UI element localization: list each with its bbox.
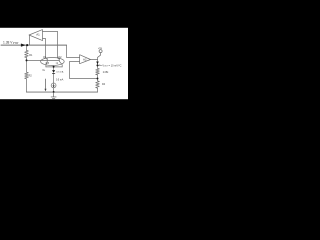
wire emitter rail xyxy=(46,66,62,68)
junction dot main node xyxy=(26,44,28,46)
soft top boundary xyxy=(0,26,128,29)
ellipse around Q1 Q2 pair xyxy=(41,58,65,66)
svg-text:0.5 mA: 0.5 mA xyxy=(56,71,63,74)
junction dot output node xyxy=(96,64,98,66)
diode D1 xyxy=(52,70,55,73)
ground symbol xyxy=(51,92,57,98)
current source internal arrow xyxy=(53,84,55,87)
resistor R4 xyxy=(96,81,100,88)
wire A1 bottom input to Q1 collector xyxy=(43,39,46,58)
wire main rail to A2 upper input xyxy=(67,45,80,57)
letterbox background xyxy=(0,0,128,128)
white schematic panel xyxy=(0,28,128,99)
svg-text:2.05k: 2.05k xyxy=(103,72,109,74)
junction dot current source rail xyxy=(53,91,55,93)
wire left divider top xyxy=(26,45,28,50)
wire A1 top input to Q2 collector xyxy=(43,31,58,57)
junction dot divider tap xyxy=(26,59,28,61)
wire A2 output xyxy=(91,59,98,61)
junction dot feedback tap xyxy=(97,78,99,80)
resistor R1 xyxy=(25,50,29,57)
svg-text:0.5 mA: 0.5 mA xyxy=(56,78,64,81)
arrowhead on 1.38V wire xyxy=(21,44,26,47)
current source I1 circle xyxy=(51,83,56,88)
wire diode to current source xyxy=(53,73,55,83)
terminal +VS wire jog xyxy=(98,53,101,60)
svg-text:VOUT = 10 mV/°C: VOUT = 10 mV/°C xyxy=(102,64,121,67)
ground rail xyxy=(27,91,98,93)
op-amp A1 xyxy=(29,30,43,41)
wire emitter node to diode xyxy=(53,67,55,70)
svg-text:A2: A2 xyxy=(83,57,87,61)
wire R2 to ground rail xyxy=(26,79,28,92)
annotation arrowhead IE xyxy=(45,89,47,92)
annotation arrow IE line xyxy=(45,79,47,89)
op-amp A2 xyxy=(80,55,91,64)
wire main 1.38V rail xyxy=(1,44,67,46)
svg-text:1.38 V: 1.38 V xyxy=(3,40,13,44)
svg-text:PTAT: PTAT xyxy=(13,42,19,45)
junction dot emitter node xyxy=(53,66,55,68)
wire A2 lower input feedback loop xyxy=(70,62,98,79)
wire current source to ground rail xyxy=(53,88,55,92)
wire R4 to ground rail xyxy=(97,88,99,92)
tick at output dot xyxy=(99,64,102,67)
resistor R2 xyxy=(25,72,29,79)
soft bottom boundary xyxy=(0,98,128,101)
terminal +VS circle xyxy=(99,50,102,53)
wire tap to R2 xyxy=(26,60,28,72)
wire A1 output down to main node xyxy=(28,35,30,45)
wire base rail xyxy=(27,59,60,61)
transistor Q1 xyxy=(46,57,48,67)
transistor Q2 xyxy=(58,57,63,67)
arrow on output vertical xyxy=(96,62,99,65)
wire R1 to tap xyxy=(26,58,28,61)
svg-text:A1: A1 xyxy=(36,33,40,37)
wire output node down xyxy=(97,60,99,69)
resistor R3 xyxy=(96,68,100,75)
wire R3 to tap xyxy=(97,75,99,81)
